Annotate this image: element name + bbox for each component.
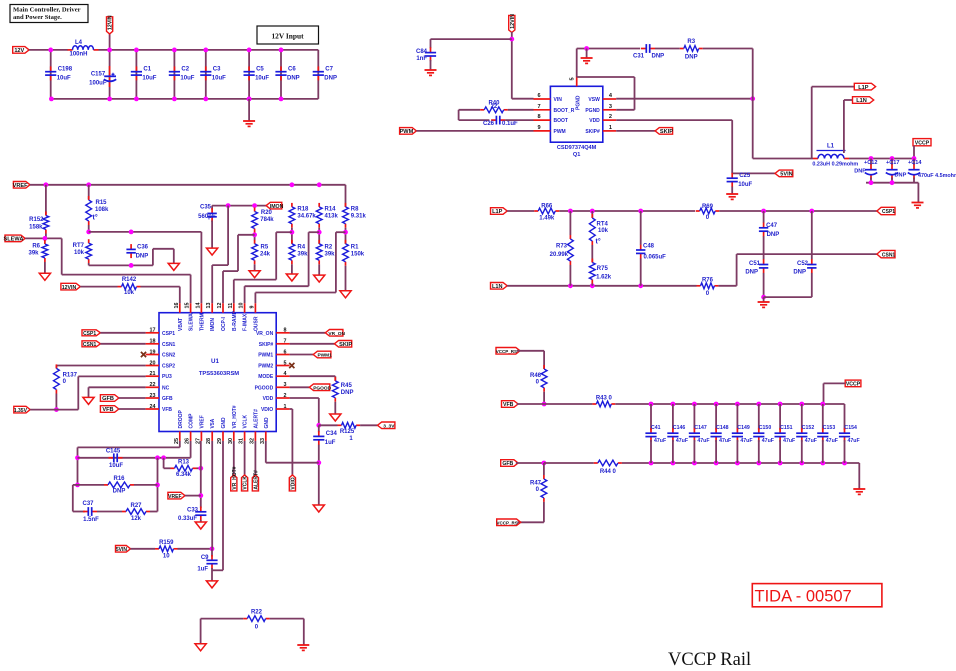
svg-text:ALERT#: ALERT# — [253, 409, 259, 429]
svg-text:R5: R5 — [261, 244, 269, 250]
port VCCP right — [845, 380, 861, 388]
resistor R75 1.62k — [589, 259, 611, 284]
resistor R4 39k — [289, 240, 308, 264]
wire FIMAX tap — [309, 231, 320, 233]
svg-text:VR_HOT#: VR_HOT# — [232, 405, 238, 428]
wire C41 bottom stem — [650, 440, 652, 463]
svg-text:C41: C41 — [651, 425, 661, 431]
wire VREF to R8 — [345, 185, 347, 207]
svg-text:COMP: COMP — [189, 413, 195, 429]
svg-text:U1: U1 — [211, 358, 219, 365]
controller U1 TPS53603RSM body — [159, 313, 276, 432]
wire VSW — [616, 98, 753, 100]
svg-text:24: 24 — [150, 404, 156, 410]
wire C154 top stem — [844, 404, 846, 430]
wire fb left bus lower — [72, 485, 74, 512]
capacitor C37 1.5nF — [83, 507, 97, 516]
junction — [279, 48, 284, 53]
junction — [590, 209, 595, 214]
wire DNP gnd link — [764, 296, 812, 298]
junction — [247, 97, 252, 102]
svg-text:VFB: VFB — [102, 407, 113, 413]
wire C198 column — [50, 50, 52, 99]
svg-text:47uF: 47uF — [740, 438, 752, 444]
svg-text:C26: C26 — [483, 121, 495, 127]
wire GFB to R44 — [544, 462, 594, 464]
port 1.35V — [14, 406, 30, 414]
capacitor C148 47uF — [711, 428, 722, 442]
wire to VCCP_RS port — [518, 521, 544, 523]
wire C25 to ground — [731, 187, 733, 194]
port VCLK vertical — [242, 475, 249, 491]
wire to pin12 — [222, 271, 224, 303]
port VR_HOT# vertical — [231, 466, 238, 491]
wire R1 to ground — [345, 266, 347, 291]
wire C151 bottom stem — [779, 440, 781, 463]
wire C52 bottom — [811, 273, 813, 297]
svg-text:DNP: DNP — [113, 488, 126, 494]
svg-text:VREF: VREF — [168, 494, 181, 500]
junction — [129, 263, 134, 268]
svg-text:5: 5 — [284, 360, 287, 366]
svg-text:3: 3 — [284, 382, 287, 388]
resistor R47 0 — [530, 475, 547, 502]
resistor R46 0 — [530, 365, 547, 392]
svg-text:R46: R46 — [530, 373, 542, 379]
svg-text:R14: R14 — [325, 207, 337, 213]
wire BOOT_R left — [459, 109, 481, 111]
wire L1P tap — [811, 87, 813, 159]
junction — [756, 402, 761, 407]
U1 pin 6 PWM1 — [258, 349, 289, 358]
wire C35 top — [211, 206, 213, 210]
svg-text:CSP1: CSP1 — [83, 331, 96, 337]
wire VDD down — [731, 120, 733, 173]
wire R14 to R2 — [318, 228, 320, 244]
junction — [869, 180, 874, 185]
svg-text:47uF: 47uF — [697, 438, 709, 444]
svg-text:+C14: +C14 — [908, 160, 922, 166]
junction — [809, 209, 814, 214]
wire RT7 bottom — [88, 263, 90, 265]
resistor R22 0 — [243, 609, 269, 630]
inductor L4 100nH — [68, 46, 99, 50]
power ground C84 — [425, 70, 437, 75]
wire to 5VIN port — [732, 172, 775, 174]
wire PWM1 — [290, 354, 314, 356]
capacitor C31 DNP — [641, 44, 655, 53]
capacitor C36 DNP — [126, 244, 135, 258]
Q1 pin 5 PGND top — [570, 77, 582, 110]
wire 5VIN to R159 — [131, 548, 156, 550]
U1 pin 21 PU3 — [146, 371, 172, 380]
resistor R2 39k — [316, 240, 335, 264]
wire NC — [89, 386, 146, 388]
Q1 pin 7 BOOT_R — [534, 104, 575, 114]
svg-text:BOOT_R: BOOT_R — [554, 108, 575, 114]
capacitor C1 — [131, 66, 157, 81]
power ground Q1 top — [581, 58, 593, 63]
wire to L1N port — [844, 99, 853, 101]
ground C35 — [207, 248, 218, 255]
wire R137 bottom — [55, 394, 57, 410]
svg-text:C47: C47 — [766, 223, 778, 229]
svg-text:150k: 150k — [351, 251, 365, 257]
svg-text:GND: GND — [221, 417, 227, 429]
U1 pin 13 IMON — [206, 303, 216, 332]
junction — [671, 402, 676, 407]
wire OCP jog — [223, 270, 238, 272]
svg-text:1.62k: 1.62k — [596, 274, 612, 280]
port VCCP top — [913, 139, 931, 147]
svg-text:DROOP: DROOP — [178, 410, 184, 429]
svg-text:C33: C33 — [187, 508, 199, 514]
port GFB bottom — [501, 460, 518, 468]
wire 12VIN to R142 — [80, 286, 117, 288]
svg-text:19: 19 — [150, 349, 156, 355]
svg-text:C148: C148 — [716, 425, 729, 431]
wire C149 bottom stem — [736, 440, 738, 463]
junction — [799, 461, 804, 466]
wire THERM to pin14 — [200, 232, 202, 303]
wire NC to ground — [88, 387, 90, 397]
svg-text:RT4: RT4 — [597, 222, 609, 228]
svg-text:0.23uH 0.29mohm: 0.23uH 0.29mohm — [812, 162, 858, 168]
wire cap column x=281.0 — [280, 50, 282, 99]
svg-text:CSP1: CSP1 — [882, 209, 895, 215]
wire MODE down — [334, 376, 336, 381]
svg-text:L1: L1 — [827, 144, 835, 150]
wire VCCP_RS — [517, 350, 544, 352]
svg-text:and Power Stage.: and Power Stage. — [13, 14, 62, 21]
port VREF left — [13, 182, 30, 190]
svg-text:SKIP#: SKIP# — [585, 129, 600, 135]
resistor R159 10 — [155, 540, 178, 560]
svg-text:6: 6 — [284, 349, 287, 355]
junction — [43, 236, 48, 241]
svg-text:7: 7 — [538, 104, 541, 110]
svg-text:DNP: DNP — [895, 173, 907, 179]
svg-text:VDIO: VDIO — [261, 407, 273, 413]
wire to pin11 — [233, 280, 235, 304]
junction — [568, 283, 573, 288]
wire cap column x=174.4 — [173, 50, 175, 99]
svg-text:C31: C31 — [633, 53, 645, 59]
svg-text:VREF: VREF — [13, 183, 29, 189]
ground R5 — [249, 271, 260, 278]
svg-text:C36: C36 — [137, 244, 149, 250]
svg-text:SLEWA: SLEWA — [4, 237, 24, 243]
wire SLEWA to pin15 — [190, 275, 192, 304]
power ground C25 — [726, 194, 738, 199]
svg-text:L1N: L1N — [492, 284, 503, 290]
svg-text:C154: C154 — [845, 425, 858, 431]
junction — [590, 283, 595, 288]
svg-text:VR_HOT#: VR_HOT# — [232, 466, 238, 489]
capacitor C84 1nF — [425, 47, 436, 61]
wire pin28 V5A down — [211, 441, 213, 549]
svg-text:GND: GND — [264, 417, 270, 429]
junction — [750, 96, 755, 101]
junction — [198, 493, 203, 498]
svg-text:R66: R66 — [541, 204, 553, 210]
resistor R6 39k — [28, 240, 47, 262]
wire C26 to pin8 — [505, 119, 533, 121]
resistor R27 12k — [122, 503, 150, 522]
junction — [247, 48, 252, 53]
svg-text:R43 0: R43 0 — [596, 396, 613, 402]
wire to ground — [763, 297, 765, 301]
svg-text:R13: R13 — [178, 460, 190, 466]
wire C34 to ground — [318, 445, 320, 505]
wire C153 bottom stem — [822, 440, 824, 463]
svg-text:10k: 10k — [598, 228, 609, 234]
svg-text:8: 8 — [284, 328, 287, 334]
svg-text:R1: R1 — [351, 244, 359, 250]
junction — [49, 97, 54, 102]
svg-text:+C12: +C12 — [864, 160, 878, 166]
svg-text:CSP1: CSP1 — [162, 331, 175, 337]
wire 12V rail bottom — [51, 98, 319, 100]
junction — [161, 455, 166, 460]
svg-text:47uF: 47uF — [826, 438, 838, 444]
svg-text:BOOT: BOOT — [554, 118, 568, 124]
junction — [317, 230, 322, 235]
svg-text:R137: R137 — [63, 373, 78, 379]
wire R46 to VFB line — [543, 392, 545, 404]
svg-text:6: 6 — [538, 93, 541, 99]
wire OUSR tap — [336, 231, 346, 233]
wire C31 to R3 — [655, 48, 680, 50]
wire BRAMP down — [275, 232, 277, 279]
svg-text:R159: R159 — [159, 540, 174, 546]
svg-text:0.065uF: 0.065uF — [644, 254, 667, 260]
port VFB bottom — [502, 401, 519, 409]
svg-text:12V: 12V — [14, 48, 24, 54]
wire OUSR down — [335, 232, 337, 292]
svg-text:OUSR: OUSR — [253, 316, 259, 331]
svg-text:R76: R76 — [702, 277, 714, 283]
svg-text:0.1uF: 0.1uF — [502, 121, 518, 127]
wire cap column x=249.1 — [248, 50, 250, 99]
svg-text:VCCP_RS: VCCP_RS — [496, 521, 517, 526]
wire C150 top stem — [758, 404, 760, 430]
title note box — [10, 5, 88, 23]
wire to R13 — [164, 467, 171, 469]
Q1 pin 9 PWM — [534, 125, 566, 135]
svg-text:SKIP#: SKIP# — [259, 342, 274, 348]
junction — [890, 180, 895, 185]
svg-text:17: 17 — [150, 328, 156, 334]
ground C9 — [206, 581, 217, 588]
svg-text:CSN2: CSN2 — [162, 353, 176, 359]
wire to R46 — [543, 351, 545, 369]
svg-text:DNP: DNP — [745, 269, 758, 275]
wire VDD down — [318, 398, 320, 425]
junction — [252, 203, 257, 208]
wire R40 to pin7 — [508, 109, 534, 111]
svg-text:10k: 10k — [124, 290, 135, 296]
svg-text:DNP: DNP — [287, 75, 300, 81]
wire C84 to ground — [430, 60, 432, 70]
wire VDIO — [290, 408, 293, 410]
wire CSN up — [736, 254, 738, 286]
capacitor C34 — [313, 431, 337, 446]
resistor R5 24k — [252, 240, 271, 264]
wire R16 right — [134, 484, 158, 486]
wire RT4 top — [591, 211, 593, 218]
wire C9 to ground — [211, 568, 213, 581]
junction — [172, 97, 177, 102]
U1 pin 10 F-IMAX — [239, 303, 249, 332]
capacitor C153 47uF — [817, 428, 828, 442]
svg-text:IMON: IMON — [210, 318, 216, 331]
U1 pin 15 SLEWA — [185, 303, 195, 332]
svg-text:R18: R18 — [297, 207, 309, 213]
wire C150 bottom stem — [758, 440, 760, 463]
junction — [638, 283, 643, 288]
port SKIP at Q1 — [655, 128, 673, 136]
wire C52 top — [811, 211, 813, 260]
svg-text:C2: C2 — [181, 66, 189, 72]
svg-text:1.49k: 1.49k — [539, 216, 555, 222]
wire BOOT left — [459, 119, 490, 121]
svg-text:R3: R3 — [687, 39, 695, 45]
junction — [316, 460, 321, 465]
U1 pin 24 VFB — [146, 404, 173, 413]
svg-text:18: 18 — [150, 339, 156, 345]
svg-text:12VIN: 12VIN — [108, 15, 114, 30]
svg-text:SKIP: SKIP — [339, 342, 352, 348]
svg-text:470uF 4.5mohm: 470uF 4.5mohm — [918, 173, 956, 179]
wire to ground — [248, 99, 250, 121]
svg-text:OCP-I: OCP-I — [221, 317, 227, 332]
port PGOOD — [309, 384, 331, 392]
wire C47 top — [763, 211, 765, 223]
wire to ground — [917, 183, 919, 202]
svg-text:20: 20 — [150, 360, 156, 366]
wire RT4 to R75 — [591, 245, 593, 263]
wire C153 top stem — [822, 404, 824, 430]
wire R22 left — [201, 618, 244, 620]
svg-text:13: 13 — [206, 303, 212, 309]
wire CSP2 — [56, 365, 145, 367]
U1 pin 31 VCLK — [239, 415, 249, 445]
U1 pin 17 CSP1 — [146, 328, 176, 337]
wire R45 to ground — [334, 402, 336, 414]
svg-text:47uF: 47uF — [762, 438, 774, 444]
port CSP1 right — [877, 207, 895, 215]
svg-text:CSN1: CSN1 — [882, 252, 896, 258]
svg-text:VR_ON: VR_ON — [328, 331, 345, 337]
resistor RT7 10k — [73, 239, 92, 263]
wire SLEWA down — [61, 238, 63, 274]
wire VCCP stem — [913, 146, 915, 159]
wire C7 column — [317, 50, 319, 99]
svg-text:1: 1 — [609, 125, 612, 131]
wire VSW down to power rail — [752, 49, 754, 159]
junction — [869, 156, 874, 161]
capacitor C7 — [313, 66, 337, 81]
port 5VIN right — [775, 170, 793, 178]
resistor R1 150k — [343, 240, 365, 266]
port GFB left — [100, 395, 118, 403]
wire DROOP across — [78, 446, 180, 448]
wire fb left bus upper — [77, 447, 79, 485]
junction — [509, 37, 514, 42]
capacitor C52 DNP — [807, 259, 816, 273]
junction — [203, 97, 208, 102]
svg-text:10uF: 10uF — [109, 463, 123, 469]
junction — [226, 203, 231, 208]
svg-text:ALERT#: ALERT# — [253, 470, 259, 490]
svg-text:DNP: DNP — [341, 390, 354, 396]
Q1 pin 3 PGND — [585, 104, 616, 114]
svg-text:VCCP_RS: VCCP_RS — [496, 349, 517, 354]
junction — [584, 46, 589, 51]
svg-text:B-RAMP: B-RAMP — [232, 310, 238, 331]
wire to C34 — [318, 425, 320, 432]
wire pin to ALERT# port — [254, 441, 256, 475]
U1 pin 9 OUSR — [249, 303, 259, 331]
wire PGND top link — [577, 76, 635, 78]
svg-text:47uF: 47uF — [783, 438, 795, 444]
svg-text:24k: 24k — [260, 251, 271, 257]
inductor L1 core bar — [817, 150, 846, 152]
svg-text:C153: C153 — [823, 425, 836, 431]
wire VR_ON — [290, 332, 326, 334]
ground analog R22 — [195, 644, 206, 651]
capacitor C33 0.33uF — [195, 507, 206, 521]
svg-text:IMON: IMON — [270, 204, 284, 210]
wire VDD pin2 — [616, 119, 732, 121]
svg-text:C34: C34 — [326, 431, 338, 437]
wire cap column x=136.4 — [135, 50, 137, 99]
wire 1.35V — [30, 409, 78, 411]
junction — [842, 461, 847, 466]
wire to ground — [173, 249, 175, 264]
svg-text:C152: C152 — [802, 425, 815, 431]
wire CSN1 line — [737, 253, 877, 255]
junction — [75, 455, 80, 460]
wire COMP branch — [78, 457, 191, 459]
svg-text:3_3V: 3_3V — [383, 424, 395, 430]
svg-text:R75: R75 — [597, 266, 609, 272]
svg-text:V5A: V5A — [210, 418, 216, 428]
wire GFB to node — [516, 462, 544, 464]
port L1N left — [491, 283, 508, 291]
U1 pin 29 GND — [217, 417, 227, 444]
ground C34 — [313, 505, 324, 512]
U1 pin 22 NC — [146, 382, 170, 391]
wire VCCP stem down — [823, 383, 825, 404]
wire PU3 drop — [77, 376, 79, 409]
svg-text:VFB: VFB — [503, 402, 514, 408]
wire C51 bottom — [763, 273, 765, 297]
svg-text:VBAT: VBAT — [178, 318, 184, 331]
wire to R16 — [78, 484, 105, 486]
U1 pin 7 SKIP# — [259, 339, 290, 348]
wire to C84 — [431, 38, 512, 40]
wire fb right bus — [157, 458, 159, 512]
U1 pin 26 COMP — [185, 413, 195, 444]
wire SLEWA — [25, 237, 62, 239]
resistor R14 413k — [316, 203, 338, 228]
TIDA-00507 box — [752, 584, 882, 607]
wire R27 right — [150, 511, 158, 513]
svg-text:R44 0: R44 0 — [600, 469, 617, 475]
wire SKIP# to port — [616, 130, 655, 132]
